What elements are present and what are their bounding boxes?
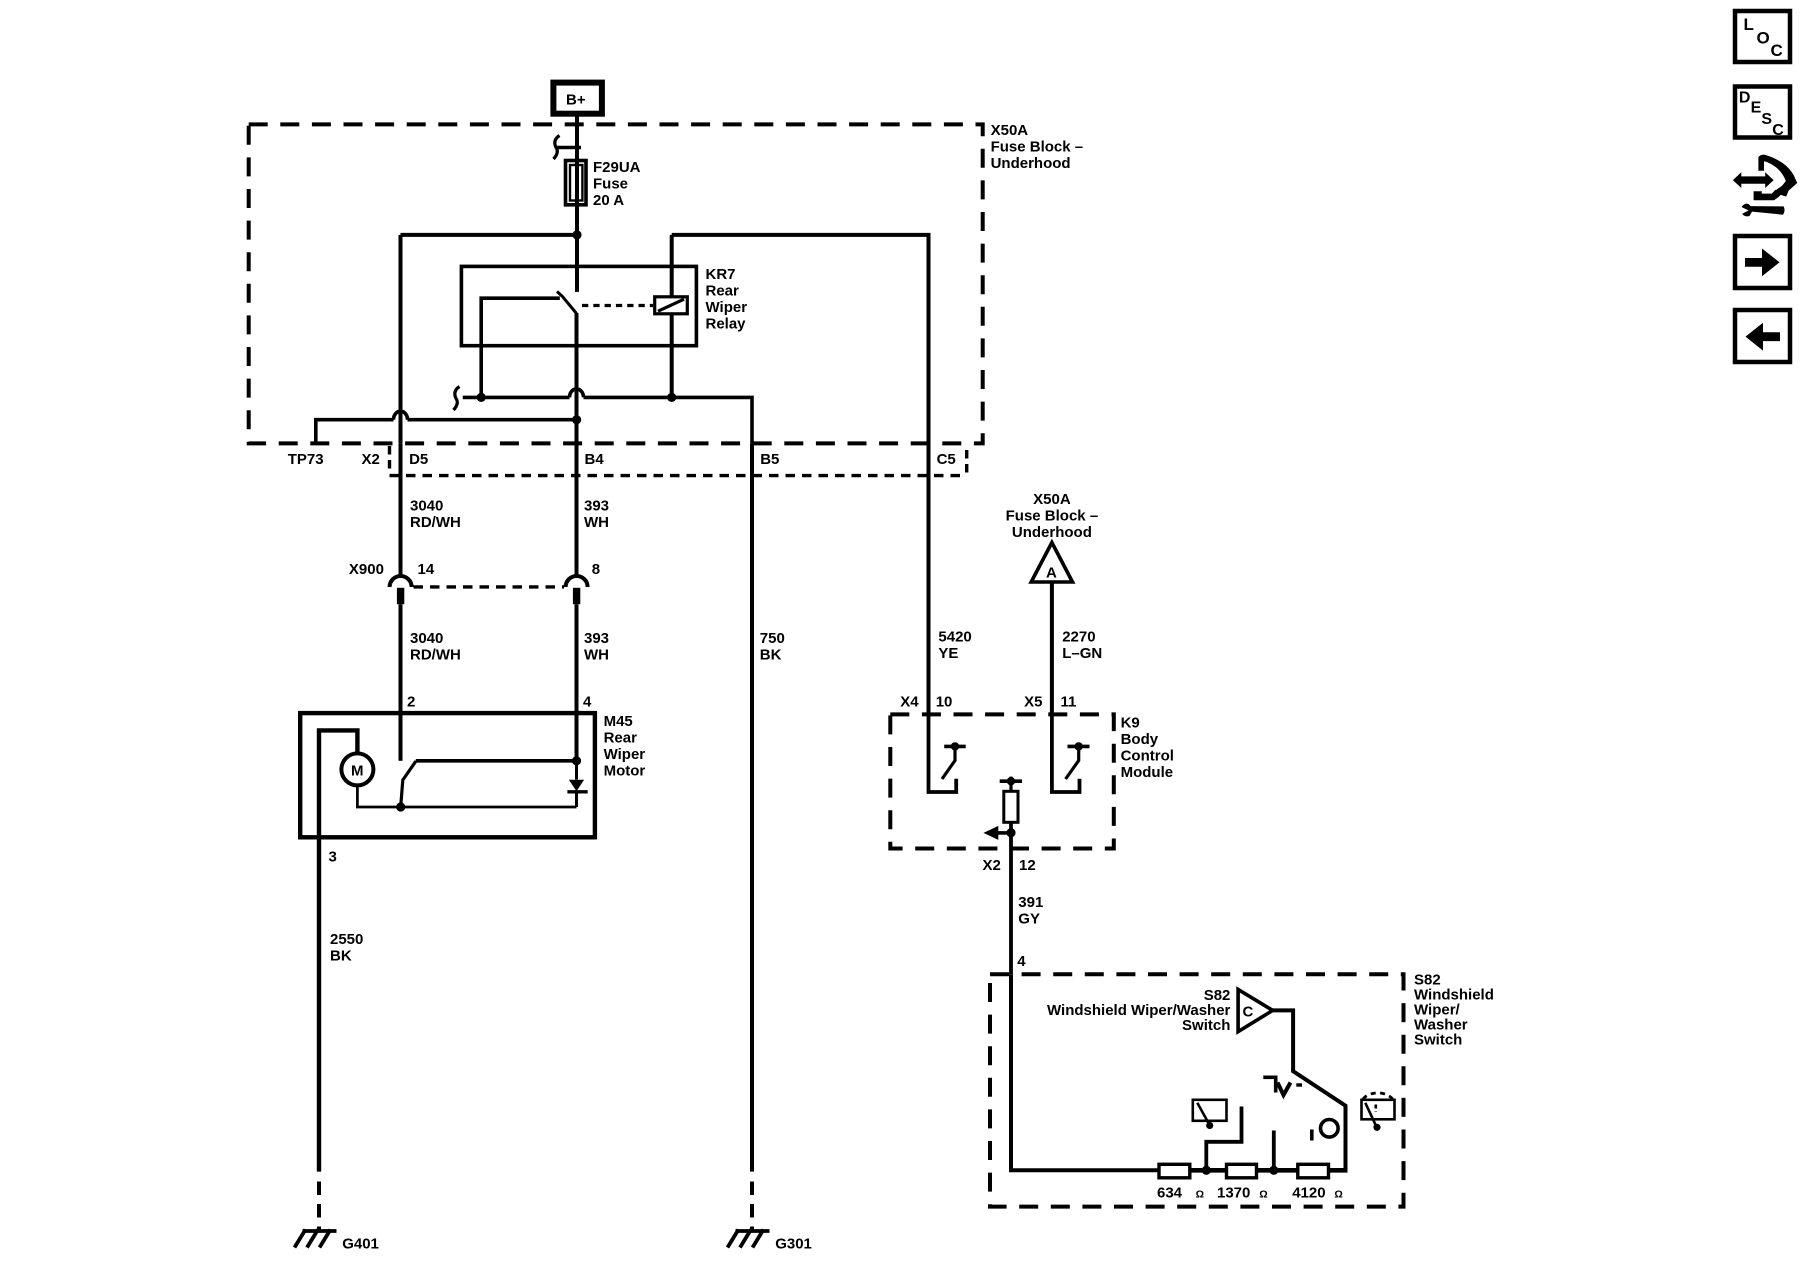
button forward arrow <box>1735 236 1790 288</box>
label M45 Rear Wiper Motor <box>604 713 646 780</box>
wire C to wiper common <box>1273 1010 1346 1170</box>
svg-text:634: 634 <box>1157 1184 1183 1201</box>
svg-text:B5: B5 <box>760 451 779 468</box>
wire motor return bus <box>357 785 576 807</box>
svg-text:4: 4 <box>1017 953 1026 970</box>
svg-text:5420: 5420 <box>938 629 971 646</box>
wire tap 2 stub <box>1272 1131 1276 1171</box>
connector X900 pin 14 <box>390 576 412 604</box>
node C triangle <box>1238 989 1273 1031</box>
svg-text:RD/WH: RD/WH <box>410 514 461 531</box>
wire coil feed <box>670 235 674 297</box>
wire coil return <box>670 314 674 398</box>
ground G301 <box>728 1230 812 1253</box>
svg-text:12: 12 <box>1019 857 1036 874</box>
label circuit 393 WH lower <box>584 630 609 664</box>
resistor 4120 ohm <box>1298 1164 1329 1178</box>
svg-text:750: 750 <box>760 630 785 647</box>
park detent marker <box>1263 1077 1302 1095</box>
battery terminal B+ <box>553 83 602 114</box>
signal arrow into BCM <box>984 826 1012 840</box>
wire B4 to X900 pin 8 <box>575 443 579 577</box>
svg-text:L–GN: L–GN <box>1062 645 1102 662</box>
relay KR7 box <box>461 266 696 345</box>
svg-text:Ω: Ω <box>1334 1189 1342 1201</box>
wire top bus right to C5 <box>672 235 929 715</box>
wire resistor to pin 12 <box>1009 822 1013 848</box>
svg-text:Motor: Motor <box>604 763 646 780</box>
svg-text:BK: BK <box>330 947 352 964</box>
svg-text:L: L <box>1744 15 1754 34</box>
svg-text:Switch: Switch <box>1414 1032 1462 1049</box>
button back arrow <box>1735 310 1790 362</box>
svg-text:C: C <box>1243 1003 1254 1020</box>
svg-text:1370: 1370 <box>1217 1184 1250 1201</box>
svg-text:Control: Control <box>1121 747 1174 764</box>
wire motor pin 2 contact <box>399 713 403 761</box>
wire X900 pin 14 to motor pin 2 <box>399 604 403 713</box>
svg-text:GY: GY <box>1018 911 1040 928</box>
svg-text:C5: C5 <box>937 451 956 468</box>
wire ladder segment 1 <box>1190 1168 1227 1173</box>
svg-text:C: C <box>1771 41 1783 60</box>
wire D5 to X900 pin 14 <box>399 443 403 577</box>
svg-text:Relay: Relay <box>706 316 747 333</box>
wire A feed to BCM pin 11 <box>1050 582 1054 714</box>
svg-text:O: O <box>1757 28 1770 47</box>
label S82 outside <box>1414 972 1494 1049</box>
BCM switch pin 11 <box>1052 714 1090 792</box>
connector X900 dashed link <box>414 585 565 588</box>
svg-text:3040: 3040 <box>410 630 443 647</box>
node tap 2 <box>1269 1166 1278 1175</box>
relay switch blade <box>557 292 577 314</box>
icon wiper low <box>1193 1100 1227 1129</box>
svg-text:11: 11 <box>1061 693 1077 710</box>
label 1370 ohm <box>1217 1184 1268 1201</box>
BCM switch pin 10 <box>929 714 966 792</box>
label circuit 2270 L-GN <box>1062 629 1102 663</box>
wire motor pin 4 <box>575 713 579 761</box>
svg-text:20 A: 20 A <box>593 192 624 209</box>
svg-text:X2: X2 <box>362 451 380 468</box>
label X50A Fuse Block Underhood right <box>1006 491 1099 541</box>
button DESC <box>1735 87 1790 140</box>
svg-text:YE: YE <box>938 645 958 662</box>
label K9 Body Control Module <box>1121 714 1174 781</box>
svg-text:D5: D5 <box>409 451 428 468</box>
svg-text:Fuse Block –: Fuse Block – <box>991 138 1084 155</box>
svg-text:D: D <box>1739 90 1751 107</box>
svg-text:B+: B+ <box>566 92 586 109</box>
node coil return junction <box>667 393 676 402</box>
splice clamp at relay output <box>454 387 460 411</box>
svg-text:G401: G401 <box>342 1235 379 1252</box>
node tap 1 <box>1202 1166 1211 1175</box>
svg-text:X5: X5 <box>1024 693 1042 710</box>
motor M <box>341 753 373 785</box>
wire B+ feed down through fuse <box>575 114 579 235</box>
wire ladder segment 3 <box>1329 1168 1348 1173</box>
node TP73 link to B4 wire <box>572 415 581 424</box>
label circuit 2550 BK <box>330 931 363 965</box>
svg-text:X900: X900 <box>349 561 384 578</box>
svg-text:WH: WH <box>584 514 609 531</box>
svg-text:X4: X4 <box>900 693 919 710</box>
resistor 1370 ohm <box>1227 1164 1257 1178</box>
svg-text:Fuse Block –: Fuse Block – <box>1006 507 1099 524</box>
svg-text:X50A: X50A <box>1033 491 1071 508</box>
label S82 inside right-aligned <box>1047 987 1231 1034</box>
wire B4 drop from relay <box>575 313 579 443</box>
svg-text:X2: X2 <box>983 857 1001 874</box>
motor park switch blade <box>401 761 416 807</box>
wire tap 1 to wiper contact <box>1206 1107 1241 1171</box>
svg-text:Module: Module <box>1121 764 1174 781</box>
svg-text:Ω: Ω <box>1196 1189 1204 1201</box>
current clamp symbol at feed <box>554 136 582 160</box>
svg-text:RD/WH: RD/WH <box>410 647 461 664</box>
svg-text:4120: 4120 <box>1292 1184 1325 1201</box>
wire S82 pin 4 to resistor ladder <box>1011 974 1159 1170</box>
wire X900 pin 8 to motor pin 4 <box>575 604 579 713</box>
label KR7 Rear Wiper Relay <box>706 266 748 333</box>
relay coil KR7 <box>655 297 688 314</box>
svg-text:Fuse: Fuse <box>593 175 628 192</box>
svg-text:WH: WH <box>584 647 609 664</box>
svg-text:14: 14 <box>418 561 435 578</box>
wire TP73 link <box>316 411 577 443</box>
node sense junction <box>1006 828 1015 837</box>
svg-text:Body: Body <box>1121 731 1159 748</box>
svg-text:Wiper: Wiper <box>706 299 748 316</box>
switch S82 dashed box <box>990 974 1404 1206</box>
wire relay output to B5 <box>463 389 752 443</box>
svg-text:393: 393 <box>584 497 609 514</box>
svg-text:KR7: KR7 <box>706 266 736 283</box>
relay actuation dashed link <box>582 304 653 307</box>
svg-text:K9: K9 <box>1121 714 1140 731</box>
BCM K9 dashed box <box>890 714 1114 848</box>
wire 750 BK to G301 <box>750 443 754 1231</box>
svg-text:Underhood: Underhood <box>991 155 1071 172</box>
relay armature wire <box>481 298 560 397</box>
svg-text:Wiper: Wiper <box>604 746 646 763</box>
icon washer <box>1362 1093 1395 1131</box>
svg-text:B4: B4 <box>585 451 605 468</box>
button LOC <box>1735 11 1790 62</box>
svg-text:F29UA: F29UA <box>593 159 641 176</box>
svg-text:8: 8 <box>592 561 600 578</box>
svg-text:E: E <box>1751 100 1762 117</box>
icon diagnostic arrows+wrench <box>1733 155 1797 217</box>
svg-text:Ω: Ω <box>1259 1189 1267 1201</box>
svg-text:M45: M45 <box>604 713 633 730</box>
svg-text:Underhood: Underhood <box>1012 524 1092 541</box>
ground G401 <box>295 1230 379 1253</box>
motor M45 box <box>300 713 595 837</box>
relay fixed contact from B+ <box>575 235 579 292</box>
resistor in BCM <box>1004 791 1018 822</box>
label circuit 3040 RD/WH lower <box>410 630 461 664</box>
wire 391 GY to S82 <box>1009 849 1013 975</box>
wire park switch to pin 4 <box>416 759 577 763</box>
wire D5 drop <box>399 235 403 443</box>
svg-text:BK: BK <box>760 647 782 664</box>
wiper position circle contact <box>1312 1120 1338 1141</box>
svg-text:G301: G301 <box>775 1235 812 1252</box>
label circuit 750 BK <box>760 630 785 664</box>
label circuit 393 WH upper <box>584 497 609 531</box>
svg-text:391: 391 <box>1018 894 1043 911</box>
fuse F29UA <box>566 161 587 205</box>
svg-text:Rear: Rear <box>706 283 740 300</box>
resistor 634 ohm <box>1159 1164 1190 1178</box>
node relay armature junction <box>477 393 486 402</box>
label 634 ohm <box>1157 1184 1204 1201</box>
fuse block X50A dashed box <box>249 124 983 443</box>
svg-text:S: S <box>1761 111 1772 128</box>
label circuit 391 GY <box>1018 894 1043 928</box>
node pin 4 junction <box>572 756 581 765</box>
node A triangle to fuse block <box>1031 543 1072 583</box>
svg-text:2270: 2270 <box>1062 629 1095 646</box>
svg-text:3040: 3040 <box>410 497 443 514</box>
wire 2550 BK to G401 <box>317 837 321 1231</box>
wire motor feed to pin 3 <box>319 730 357 837</box>
svg-text:M: M <box>351 762 364 779</box>
label circuit 5420 YE <box>938 629 971 663</box>
svg-text:4: 4 <box>583 693 592 710</box>
svg-text:393: 393 <box>584 630 609 647</box>
diode in motor <box>567 761 587 807</box>
label circuit 3040 RD/WH upper <box>410 497 461 531</box>
BCM internal pull-up node <box>1000 777 1022 792</box>
svg-text:10: 10 <box>936 693 953 710</box>
svg-text:2: 2 <box>407 693 415 710</box>
wire ladder segment 2 <box>1257 1168 1298 1173</box>
svg-text:3: 3 <box>329 849 337 866</box>
label X50A Fuse Block Underhood <box>991 122 1084 172</box>
node park blade pivot <box>396 802 405 811</box>
node fuse output junction <box>572 230 581 239</box>
svg-text:A: A <box>1046 565 1057 582</box>
connector row dashed box <box>390 446 967 476</box>
svg-text:X50A: X50A <box>991 122 1029 139</box>
svg-text:Switch: Switch <box>1182 1017 1230 1034</box>
wire top bus left to D5 <box>401 233 578 237</box>
svg-text:TP73: TP73 <box>288 451 324 468</box>
svg-text:2550: 2550 <box>330 931 363 948</box>
svg-text:Rear: Rear <box>604 730 638 747</box>
label F29UA Fuse 20 A <box>593 159 641 209</box>
svg-text:C: C <box>1772 122 1784 139</box>
label 4120 ohm <box>1292 1184 1343 1201</box>
connector X900 pin 8 <box>566 576 588 604</box>
